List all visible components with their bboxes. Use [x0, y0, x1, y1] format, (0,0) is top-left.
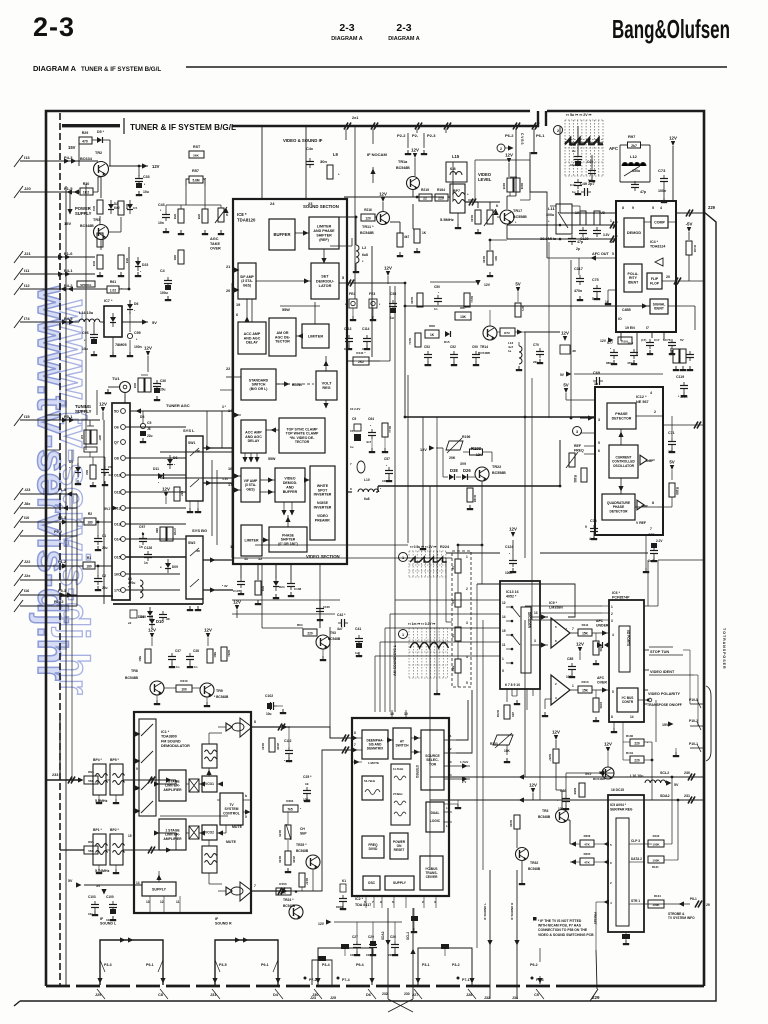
svg-text:230: 230 [404, 992, 410, 996]
svg-text:T93: T93 [330, 631, 336, 635]
svg-text:15V: 15V [64, 221, 71, 226]
svg-text:C38: C38 [193, 649, 199, 653]
wire sw1 outs [203, 447, 233, 449]
svg-text:AND AGC: AND AGC [245, 435, 262, 439]
trunk v x86 [85, 184, 87, 450]
IC13 out wires [531, 616, 548, 618]
svg-text:16: 16 [228, 467, 232, 471]
diode D8 [167, 459, 173, 464]
svg-text:2p: 2p [576, 247, 580, 251]
diode D6 [127, 304, 133, 309]
wire ifamp in [234, 267, 240, 272]
freq divid box [362, 836, 384, 858]
supply arrow [156, 875, 161, 881]
svg-text:470n: 470n [574, 289, 582, 293]
svg-text:IC9 *: IC9 * [549, 601, 558, 605]
ic8 bottom stubs [240, 564, 242, 578]
svg-text:1u: 1u [350, 445, 354, 449]
svg-text:BC548B: BC548B [125, 676, 139, 680]
svg-text:DELAY: DELAY [248, 439, 260, 443]
signal ident box [650, 299, 668, 314]
resistor R b [464, 293, 470, 307]
svg-text:R60: R60 [173, 255, 177, 261]
svg-text:100n: 100n [134, 345, 142, 349]
svg-text:SEP: SEP [300, 831, 307, 835]
svg-text:R102: R102 [693, 245, 697, 253]
tuner pin wires [126, 426, 186, 428]
svg-text:Q7: Q7 [114, 441, 119, 445]
wire source out L4 [444, 778, 470, 780]
wire mid h y246 [330, 245, 352, 247]
svg-text:1n: 1n [594, 382, 598, 386]
top sync clamp box [279, 418, 325, 453]
svg-text:CY26: CY26 [173, 528, 177, 535]
wire preset down [595, 902, 597, 950]
resistor R58 [202, 209, 208, 223]
trunk v x477 [476, 584, 478, 948]
svg-text:SER/PAR REG: SER/PAR REG [610, 807, 633, 811]
svg-text:MUTE: MUTE [232, 825, 243, 829]
svg-text:R219: R219 [421, 188, 429, 192]
wire 12v row y212 [310, 211, 340, 213]
svg-text:9: 9 [585, 525, 587, 529]
svg-text:* 3V: * 3V [222, 584, 228, 588]
svg-text:8: 8 [611, 715, 613, 719]
tuner TU1 box [112, 403, 130, 600]
svg-text:R110: R110 [581, 680, 588, 684]
svg-text:D26: D26 [463, 468, 471, 473]
resistor R110 15K [578, 686, 592, 693]
trunk h y433 [580, 432, 595, 434]
wire bus x560 up [559, 126, 561, 213]
resistor tr9 base [207, 649, 213, 663]
switch SW2 box [186, 536, 203, 599]
wire y560 stub [446, 559, 452, 561]
wire tr14 up [489, 310, 491, 326]
svg-text:12V: 12V [148, 628, 156, 633]
svg-text:R56: R56 [173, 214, 177, 220]
svg-text:2x1: 2x1 [352, 116, 358, 120]
svg-text:V REF: V REF [636, 521, 646, 525]
resistor R206 [580, 840, 594, 847]
svg-text:P3-2: P3-2 [452, 963, 460, 967]
input J22 P1-2 [20, 565, 83, 567]
svg-text:-5V: -5V [686, 222, 693, 227]
svg-text:J6: J6 [147, 427, 151, 431]
wire ic13 trunk from mid [540, 616, 548, 618]
svg-text:OVER: OVER [210, 247, 221, 251]
svg-text:47K: 47K [584, 843, 590, 847]
svg-text:1 MUTE: 1 MUTE [368, 761, 379, 765]
svg-text:12V: 12V [162, 487, 170, 492]
svg-text:1n: 1n [139, 545, 143, 549]
wire demod to white [305, 479, 310, 481]
svg-text:BC548B: BC548B [396, 166, 410, 170]
diode D5 [97, 137, 102, 143]
trunk v x395 [394, 286, 396, 712]
gnd tr8 [156, 700, 158, 703]
svg-text:AFC OUT: AFC OUT [592, 252, 610, 256]
svg-text:BP2 *: BP2 * [110, 828, 120, 832]
resistor R181 [581, 468, 587, 482]
trunk h y904 left [596, 903, 608, 905]
wire bp out to ic1 [156, 780, 176, 784]
bracket to transposer [706, 686, 711, 761]
svg-text:C50: C50 [434, 285, 440, 289]
resistor R131 220 [630, 756, 644, 763]
svg-text:274kHz: 274kHz [393, 792, 403, 796]
svg-text:R208: R208 [573, 788, 577, 795]
svg-text:P2A2: P2A2 [54, 600, 64, 604]
svg-text:L2: L2 [448, 747, 452, 751]
resistor R207 [553, 749, 559, 763]
resistor R42 [90, 465, 96, 479]
svg-text:15: 15 [502, 629, 506, 633]
wire ic1 out bot [252, 890, 290, 892]
vertical resistor R51 [97, 233, 103, 247]
wire deem to at [388, 739, 393, 741]
svg-text:R7x: R7x [521, 306, 525, 312]
svg-text:12V: 12V [233, 600, 241, 605]
svg-text:P6-1: P6-1 [536, 133, 545, 138]
resistor R72 [500, 328, 515, 336]
wire tr24 chain [251, 890, 276, 892]
svg-text:TR11 *: TR11 * [362, 225, 374, 229]
svg-text:3: 3 [534, 639, 536, 643]
filter BP7 [450, 184, 465, 213]
svg-text:BP4 *: BP4 * [93, 758, 103, 762]
gnd R34 [120, 272, 122, 275]
op IC8 TDA8120 outer box [233, 199, 347, 564]
svg-text:15V: 15V [68, 145, 76, 150]
wire IC7 out 5V [122, 321, 148, 323]
wire to ic6 pin5 [592, 689, 609, 691]
trunk wires ic13 left [395, 599, 500, 601]
volt reg box [316, 371, 337, 400]
svg-text:R121: R121 [652, 865, 659, 869]
svg-text:L12: L12 [630, 154, 638, 159]
wire ic1 internal 2 [186, 832, 189, 834]
svg-text:100K: 100K [652, 843, 660, 847]
input P9-2b [20, 535, 77, 537]
wire ic1 pin7 to ic2 [290, 750, 330, 891]
i2c bus contr box [617, 688, 638, 712]
svg-text:4n7: 4n7 [108, 473, 114, 477]
svg-text:15: 15 [128, 834, 132, 838]
svg-text:DEMOD: DEMOD [627, 231, 641, 235]
resistor R194 vert [467, 488, 473, 502]
svg-text:R206: R206 [584, 834, 591, 838]
12V flag sw1 [164, 492, 168, 497]
svg-text:D24: D24 [279, 585, 285, 589]
wire ic5 right [644, 843, 652, 845]
input J21 P1-6 [20, 256, 60, 258]
svg-text:INVERTER: INVERTER [314, 506, 332, 510]
wire voltreg arrows [323, 361, 328, 367]
wire comp outs trunk [477, 584, 575, 617]
wire cross bottom [388, 999, 413, 1012]
mod circle bot [231, 887, 243, 895]
svg-text:SDA2: SDA2 [381, 931, 385, 940]
svg-text:P3-4: P3-4 [322, 963, 330, 967]
gnd sw1b [197, 508, 199, 511]
svg-text:BC548B: BC548B [296, 849, 309, 853]
gnd r203 [506, 758, 508, 761]
phase detector box [607, 403, 636, 429]
svg-text:1: 1 [502, 657, 504, 661]
svg-text:I/O PORTS: I/O PORTS [626, 630, 630, 646]
svg-text:5V: 5V [674, 783, 679, 787]
svg-text:P7-1: P7-1 [462, 978, 470, 982]
svg-text:UNDER: UNDER [596, 624, 609, 628]
resistor R141 [353, 357, 369, 365]
svg-text:TUNER AGC: TUNER AGC [166, 403, 190, 408]
capacitor C33 [138, 166, 140, 176]
polarity ident box [624, 264, 642, 292]
svg-text:C49 2p7: C49 2p7 [580, 182, 595, 186]
svg-text:R168: R168 [482, 256, 486, 263]
trunk v x372 [371, 246, 373, 357]
svg-text:TR17: TR17 [513, 209, 522, 213]
amp triangle 2 [637, 500, 644, 510]
svg-text:VIDEO: VIDEO [284, 477, 295, 481]
svg-text:56K: 56K [451, 666, 455, 672]
svg-text:11: 11 [502, 643, 506, 647]
svg-text:2K06: 2K06 [292, 856, 296, 863]
svg-text:IC13 16: IC13 16 [506, 590, 519, 594]
trunk v x390 low [389, 614, 391, 712]
svg-text:5V: 5V [563, 383, 568, 388]
svg-text:SW2: SW2 [188, 541, 195, 545]
svg-text:SET: SET [321, 275, 329, 279]
resistor R x [382, 423, 388, 437]
wire ifamp in2 [234, 287, 240, 292]
svg-text:D5: D5 [140, 415, 144, 419]
svg-text:Bang&Olufsen: Bang&Olufsen [612, 14, 730, 44]
svg-text:AGC: AGC [210, 237, 219, 241]
svg-text:12K: 12K [476, 453, 483, 457]
svg-text:SCL2: SCL2 [660, 771, 669, 775]
svg-text:100K: 100K [652, 859, 660, 863]
svg-text:P9-1: P9-1 [146, 963, 154, 967]
svg-text:30n: 30n [320, 159, 327, 164]
svg-text:15V: 15V [662, 723, 669, 727]
slash P6-2 [513, 123, 517, 130]
filter BP1 [93, 834, 106, 865]
set demodulator box [311, 263, 339, 299]
svg-text:(B/G OR L): (B/G OR L) [250, 387, 268, 391]
stub P10-1 [690, 747, 704, 749]
wire ic6 left pins trunk [525, 605, 602, 607]
filter 54.7kHz box [362, 776, 383, 800]
trunk v x97 tuner [96, 390, 98, 415]
resistor R164 [435, 194, 448, 201]
wire limiter to phase [262, 539, 269, 541]
svg-text:J20: J20 [24, 186, 31, 191]
svg-text:13: 13 [146, 900, 150, 904]
svg-text:5V: 5V [152, 320, 157, 325]
resistor R228 [514, 815, 520, 829]
resistor R153 2K2 [276, 888, 291, 895]
wire flipflop out 20 [662, 280, 704, 282]
svg-text:180: 180 [87, 521, 93, 525]
svg-text:R180: R180 [675, 487, 679, 495]
resistor R193 12K [470, 449, 483, 455]
pot R196 20K [446, 441, 463, 450]
5V flag r72 [516, 287, 520, 292]
svg-text:IDENT: IDENT [654, 307, 664, 311]
circle node 3 [573, 427, 582, 436]
wire source out L3 [444, 765, 470, 767]
svg-text:OVER: OVER [597, 681, 607, 685]
watermark blue text [29, 285, 98, 695]
wire tuner to ic8 21 [160, 451, 233, 453]
svg-text:12V: 12V [152, 164, 160, 169]
diode pair ic6 [597, 642, 602, 648]
svg-text:12V: 12V [552, 730, 560, 735]
svg-text:233: 233 [52, 773, 58, 777]
resistor R68 1K [425, 330, 439, 338]
svg-text:5: 5 [245, 815, 247, 819]
svg-text:6u8: 6u8 [362, 253, 368, 257]
tv system control box [220, 793, 243, 825]
resistor R201 7k5 [283, 805, 298, 812]
svg-text:DECODER: DECODER [527, 612, 531, 629]
trunk h y690 right [570, 689, 578, 691]
svg-text:PHASE: PHASE [615, 412, 628, 416]
svg-text:TDA3800: TDA3800 [161, 735, 177, 739]
wire source out L1 [444, 739, 456, 741]
transistor TR22 BC558B [475, 467, 489, 481]
svg-text:220: 220 [511, 712, 515, 717]
svg-text:R64: R64 [297, 623, 303, 627]
svg-text:VCO2: VCO2 [205, 831, 214, 835]
decoder box [521, 607, 531, 673]
wire ic6 right outs [644, 649, 649, 651]
svg-text:C5: C5 [352, 417, 356, 421]
svg-text:4: 4 [650, 391, 652, 395]
svg-text:C4x: C4x [306, 147, 314, 151]
pot R155 [286, 824, 291, 840]
svg-text:12V: 12V [420, 448, 427, 452]
svg-text:2u: 2u [572, 149, 576, 153]
power on reset box [390, 833, 408, 859]
node I12 wire [94, 282, 96, 289]
svg-text:229: 229 [708, 205, 716, 210]
svg-text:11: 11 [176, 900, 180, 904]
wire IF NICAM L down [489, 870, 491, 999]
svg-text:47K: 47K [584, 861, 590, 865]
resistor R67 13K [455, 312, 471, 320]
svg-text:RESET: RESET [394, 848, 405, 852]
wire R61 net [95, 288, 107, 290]
svg-text:D6: D6 [134, 302, 138, 306]
waveform scope 3 grid [409, 628, 448, 678]
pot R203 [493, 735, 513, 745]
loop P3-4 [318, 948, 372, 985]
trunk v x656 low [655, 700, 657, 742]
demod box [624, 218, 644, 247]
svg-text:D5 *: D5 * [97, 130, 105, 134]
svg-text:TR14: TR14 [480, 345, 488, 349]
svg-text:55W: 55W [268, 457, 276, 461]
svg-text:DIAGRAM A: DIAGRAM A [388, 36, 420, 42]
wire tuner outputs right [210, 451, 233, 453]
svg-text:R141 *: R141 * [356, 351, 366, 355]
svg-text:5: 5 [612, 690, 614, 694]
svg-text:P1-3: P1-3 [58, 488, 66, 492]
capacitor C107 [237, 581, 245, 583]
svg-text:4n7: 4n7 [366, 440, 372, 444]
svg-text:4u7: 4u7 [337, 627, 343, 631]
svg-text:TECTOR: TECTOR [295, 440, 310, 444]
svg-text:C17: C17 [654, 338, 660, 342]
svg-text:DEMODU-: DEMODU- [316, 279, 335, 283]
svg-text:R194: R194 [473, 495, 477, 503]
gnd sw2 [189, 606, 191, 609]
svg-text:R157: R157 [305, 878, 309, 885]
wire ic8 to tr13 [319, 600, 321, 628]
svg-text:P6-3: P6-3 [58, 516, 66, 520]
resistor R157 [299, 873, 305, 887]
trunk v x262 [261, 564, 263, 628]
svg-text:C112: C112 [284, 739, 292, 743]
svg-text:10 2.2V: 10 2.2V [350, 407, 360, 411]
svg-text:4: 4 [612, 633, 614, 637]
resistor R216 [361, 214, 375, 221]
wire ch sep chain [287, 812, 289, 825]
svg-text:L4: L4 [448, 773, 452, 777]
wire TR2 base [97, 177, 99, 192]
svg-text:BC548B: BC548B [360, 231, 374, 235]
label P7-4 [337, 977, 340, 980]
svg-text:SYS BG: SYS BG [192, 528, 207, 533]
bias loop wires TR2 [78, 141, 80, 166]
svg-text:SUPPLY: SUPPLY [75, 409, 92, 414]
svg-text:TR3: TR3 [93, 218, 100, 222]
12V flag cvbs [507, 158, 511, 163]
ic4 bottom stubs [620, 332, 622, 341]
svg-text:C75: C75 [592, 278, 599, 282]
svg-text:STOP TUN: STOP TUN [650, 650, 669, 654]
svg-text:IC6 *: IC6 * [612, 591, 621, 595]
wire ic2 in4 [352, 735, 358, 740]
svg-text:D38: D38 [450, 468, 458, 473]
gnd ic5 pin [625, 940, 627, 943]
svg-text:TR24 *: TR24 * [283, 898, 294, 902]
svg-text:TUNER & IF SYSTEM B/G/L: TUNER & IF SYSTEM B/G/L [81, 66, 161, 73]
wire TR3 links [99, 216, 101, 224]
op IC4 TDA8124 box [616, 201, 676, 332]
wire r193 to tr22 col [491, 452, 493, 462]
svg-text:12V: 12V [484, 283, 491, 287]
svg-text:TECTOR: TECTOR [275, 340, 290, 344]
svg-text:AND PHASE: AND PHASE [313, 229, 335, 233]
trunk v x648 [647, 560, 649, 606]
svg-text:100n: 100n [658, 189, 666, 193]
svg-text:2-3: 2-3 [339, 22, 354, 34]
svg-text:7: 7 [254, 884, 256, 888]
wire agc row [166, 204, 221, 206]
resistor R163 [269, 738, 275, 752]
svg-text:C97: C97 [139, 525, 145, 529]
svg-text:8: 8 [622, 206, 624, 210]
svg-text:5V: 5V [669, 460, 674, 465]
wire limiter down [323, 249, 325, 258]
trunk bottom h y870 [176, 869, 352, 871]
svg-text:.I23: .I23 [24, 488, 30, 492]
svg-text:7: 7 [650, 527, 652, 531]
